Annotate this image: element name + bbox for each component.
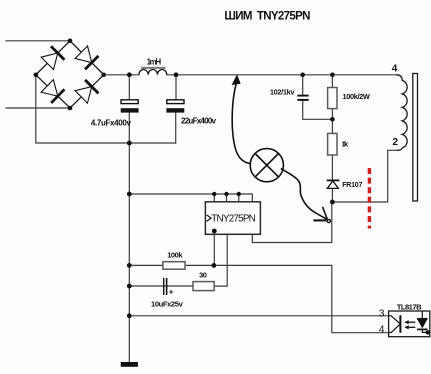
- svg-text:10uFx25v: 10uFx25v: [151, 299, 184, 308]
- svg-text:22uFx400v: 22uFx400v: [181, 117, 217, 126]
- svg-text:3: 3: [379, 309, 385, 320]
- svg-text:+: +: [169, 287, 174, 296]
- svg-text:ШИМ TNY275PN: ШИМ TNY275PN: [224, 10, 310, 22]
- svg-text:4: 4: [379, 324, 385, 335]
- svg-text:100k: 100k: [167, 250, 183, 259]
- svg-text:FR107: FR107: [342, 182, 362, 189]
- svg-text:4: 4: [392, 64, 398, 75]
- svg-text:4.7uFx400v: 4.7uFx400v: [91, 118, 132, 127]
- svg-text:1mH: 1mH: [147, 58, 162, 67]
- svg-text:100k/2W: 100k/2W: [343, 92, 370, 101]
- svg-text:2: 2: [393, 137, 399, 148]
- svg-text:TL817B: TL817B: [397, 302, 422, 311]
- svg-text:30: 30: [199, 271, 207, 280]
- svg-text:1k: 1k: [342, 140, 350, 149]
- svg-text:TNY275PN: TNY275PN: [211, 214, 256, 225]
- svg-text:102/1kv: 102/1kv: [270, 88, 295, 97]
